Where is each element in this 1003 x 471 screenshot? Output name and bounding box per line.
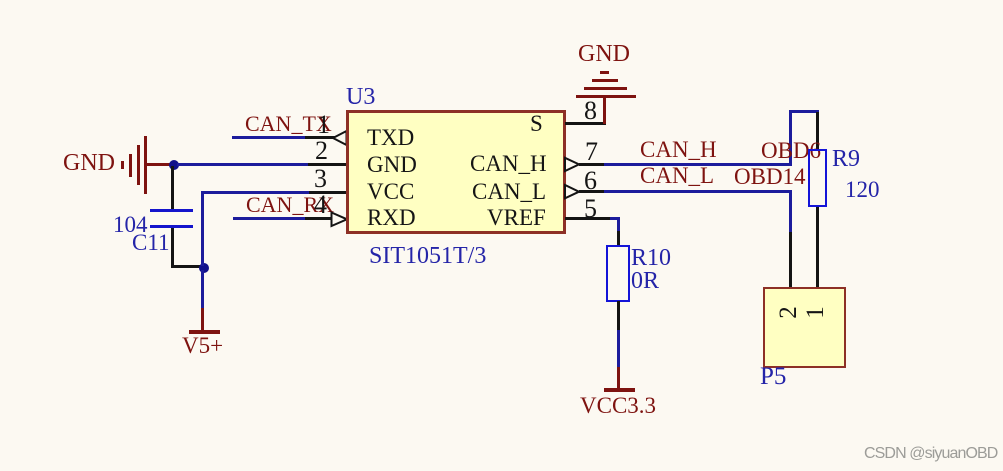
P5 pin 2 number — [776, 306, 801, 319]
pin name CAN_L — [472, 180, 546, 203]
ground (left, net GND) — [121, 161, 124, 169]
power VCC3.3 — [617, 367, 620, 389]
label OBD6 — [761, 139, 821, 162]
connector P5 — [763, 287, 846, 368]
label GND (top) — [578, 42, 630, 66]
label OBD14 — [734, 165, 806, 188]
wire net CAN_RX to pin4 RXD — [233, 217, 308, 220]
node B junction — [199, 263, 209, 273]
label CAN_RX — [246, 194, 334, 216]
wire CAN_H up and over to R9 — [789, 110, 792, 166]
power V5+ — [201, 308, 204, 331]
pin 7 number — [585, 139, 598, 165]
P5 pin 1 number — [803, 306, 828, 319]
wire node B up to pin3 (VCC) — [201, 194, 204, 266]
pin 5 wire (VREF) — [565, 217, 611, 220]
pin name TXD — [367, 126, 414, 149]
capacitor C11 — [150, 209, 193, 212]
label CAN_L — [640, 164, 714, 187]
pin 1 number — [317, 112, 330, 138]
wire node B down to V5+ — [201, 270, 204, 308]
pin 4 number — [314, 192, 327, 218]
designator U3 — [346, 85, 375, 109]
ground (top, net GND) — [576, 95, 636, 98]
pin 6 number — [584, 168, 597, 194]
pin name VCC — [367, 180, 414, 203]
wire node A to pin2 (GND) — [177, 163, 308, 166]
designator P5 — [760, 364, 786, 389]
IC U3 SIT1051T/3 body — [346, 110, 566, 234]
wire ground to node A — [147, 163, 174, 166]
wire CAN_L down to P5 pin2 — [789, 190, 792, 232]
resistor R9 — [808, 149, 827, 207]
pin name VREF — [487, 206, 546, 229]
pin name CAN_H — [470, 152, 547, 175]
pin 3 number — [314, 166, 327, 192]
wire C11 to node B — [171, 228, 174, 268]
watermark — [864, 446, 997, 462]
pin 7 wire (CAN_H) — [579, 163, 605, 166]
pin name RXD — [367, 206, 416, 229]
designator C11 — [132, 231, 170, 254]
part value SIT1051T/3 — [369, 244, 486, 268]
label GND (left) — [63, 151, 115, 175]
wire net CAN_TX to pin1 TXD — [232, 136, 307, 139]
wire R10 to VCC3.3 — [617, 301, 620, 330]
value 104 — [113, 213, 148, 236]
node A junction — [169, 160, 179, 170]
pin 2 number — [315, 138, 328, 164]
wire R9 to P5 pin1 — [816, 207, 819, 287]
pin name S — [530, 112, 543, 135]
wire node A down to C11 — [171, 166, 174, 210]
pin 8 number — [584, 98, 597, 124]
pin 5 number — [584, 196, 597, 222]
label CAN_H — [640, 138, 717, 161]
resistor R10 — [606, 245, 630, 302]
pin 6 wire (CAN_L) — [579, 190, 605, 193]
label CAN_TX — [245, 113, 332, 135]
pin name GND — [367, 153, 417, 176]
pin 8 wire (S) — [565, 122, 606, 125]
